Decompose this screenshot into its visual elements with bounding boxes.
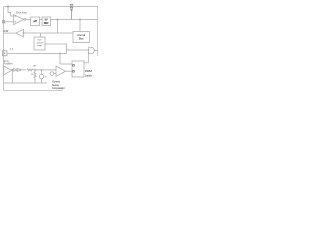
node junction at x57.5 (57, 19, 59, 21)
zener clamp circle at comparator input (50, 72, 54, 76)
box turn on/off logic (34, 37, 45, 50)
svg-text:Logic: Logic (37, 45, 42, 47)
diode D2 (18, 68, 21, 71)
wire logic box top (40, 33, 42, 37)
resistor R vertical to ground (34, 70, 36, 83)
wire node to comparator input (33, 69, 56, 71)
tick marks near ISENSE label (10, 48, 12, 50)
wire logic box to AND gate (45, 44, 89, 50)
IC outline border right (97, 7, 99, 57)
IC outline border bottom (4, 90, 63, 92)
wire branch to latch S input (60, 54, 72, 65)
box internal bias (73, 32, 90, 43)
svg-text:2R: 2R (33, 65, 36, 67)
svg-text:PWM: PWM (85, 69, 93, 73)
pin ISENSE dot (4, 53, 5, 54)
wire ISENSE (7, 53, 67, 55)
ground rail (4, 82, 48, 84)
node zener junction (41, 69, 43, 71)
text labels (3, 11, 92, 90)
wire VREF down to internal bias (79, 20, 81, 32)
svg-text:Turn: Turn (37, 38, 42, 41)
box 5V REF (42, 17, 51, 26)
op-amp U2 3.3V buffer (points left) (16, 29, 24, 37)
wire jog up joins AND wire (66, 50, 68, 54)
input polarity marks (15, 17, 16, 23)
svg-text:Comparator: Comparator (52, 87, 65, 90)
wire diodes to 2R (20, 69, 26, 71)
svg-text:Bias: Bias (79, 38, 84, 41)
wire FB pin to + input (4, 21, 14, 23)
latch S pin mark (73, 65, 75, 67)
IC outline border top (4, 6, 98, 8)
IC outline border left (3, 7, 5, 91)
svg-text:Error Amp: Error Amp (16, 11, 27, 14)
wire to UVLO box (26, 18, 31, 20)
svg-text:Amplifier: Amplifier (4, 63, 13, 66)
svg-text:µP: µP (34, 19, 38, 23)
wire VREF down to 3.3V buffer line (57, 20, 59, 34)
svg-text:On/Off: On/Off (36, 42, 43, 44)
box UVLO (31, 17, 40, 26)
box PWM latch (72, 61, 84, 77)
wire clamp stub (54, 73, 56, 75)
svg-text:3.3V: 3.3V (3, 30, 8, 33)
node junction at x80 (79, 19, 81, 21)
svg-text:R: R (31, 74, 33, 76)
node VCC junction (7, 6, 9, 8)
svg-text:REF: REF (44, 22, 49, 25)
wire buffer to 3.3V pin (4, 32, 16, 34)
latch R pin mark (73, 71, 75, 73)
AND gate output stage (89, 47, 95, 54)
wire latch to AND gate input (84, 53, 89, 63)
wire VREF rail (51, 19, 98, 21)
pin ISENSE box (2, 51, 7, 56)
output bubble (24, 18, 26, 20)
wire box1 to box2 (40, 19, 43, 21)
node buffer input (23, 32, 25, 34)
node ISENSE branch (59, 53, 61, 55)
wire gate output to OUT pin (94, 50, 97, 52)
node divider (34, 69, 36, 71)
wire comparator output to latch R (65, 70, 72, 72)
wire amp output down to ground rail (11, 70, 13, 83)
diode pass element from top rail (70, 4, 73, 19)
svg-text:1V: 1V (44, 77, 47, 79)
node amp output (11, 69, 13, 71)
zener 1V to ground (41, 70, 43, 83)
op-amp U3 current sense comparator (56, 66, 65, 76)
wire VCC to error amp inverting input (8, 7, 14, 17)
diode D1 (14, 68, 17, 71)
svg-text:Error: Error (4, 60, 9, 63)
op-amp U1 UVLO/error comparator (14, 15, 24, 25)
svg-text:Latch: Latch (85, 74, 92, 78)
op-amp U4 error amplifier (bottom left) (4, 66, 12, 75)
wire 3.3V distribution (24, 32, 74, 34)
resistor 2R horizontal (27, 69, 33, 71)
pin FB square (2, 21, 4, 23)
